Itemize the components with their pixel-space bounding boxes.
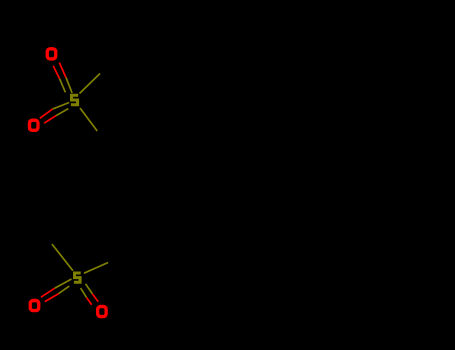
atom O3 (bottom-left) [29, 299, 41, 313]
atom O2 (left) [28, 119, 40, 133]
double bond S1=O1 line A, S half [60, 79, 66, 93]
sulfonyl group 1 (top) bond lines [40, 63, 100, 132]
double bond S2=O3 line A, S half [55, 279, 72, 288]
atom O1 (top) [46, 47, 58, 61]
double bond S2=O4 line A, O half [87, 298, 92, 305]
bond from S1 down-right [80, 108, 97, 131]
double bond S1=O1 line A, O half [53, 66, 59, 79]
double bond S2=O4 line B, S half [86, 284, 93, 294]
double bond S2=O3 line B, S half [59, 286, 70, 294]
atom S1 [70, 94, 79, 107]
methyl bond from S2 up-left [52, 244, 73, 271]
atom S2 [73, 272, 82, 284]
double bond S1=O1 line B, S half [66, 78, 72, 93]
double bond S1=O2 line A, S half [53, 103, 70, 110]
double bond S1=O2 line B, O half [44, 116, 56, 123]
double bond S2=O4 line B, O half [92, 294, 98, 302]
double bond S1=O2 line B, S half [56, 109, 68, 116]
bond from S2 up-right [84, 263, 108, 274]
double bond S2=O4 line A, S half [81, 288, 87, 298]
atom O4 (bottom-right) [96, 305, 108, 319]
methyl bond from S1 up-right [80, 74, 101, 94]
double bond S2=O3 line A, O half [41, 288, 55, 297]
double bond S1=O1 line B, O half [59, 63, 66, 78]
sulfonyl group 2 (bottom) bond lines [41, 244, 108, 305]
double bond S1=O2 line A, O half [40, 109, 53, 118]
double bond S2=O3 line B, O half [45, 294, 59, 302]
